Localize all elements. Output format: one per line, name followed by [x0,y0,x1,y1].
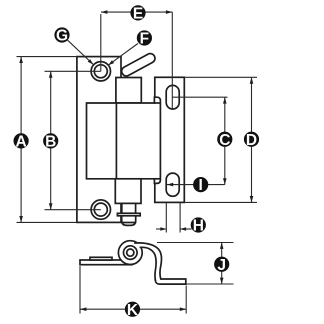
top pin ring outer [91,62,110,81]
bottom step block [115,179,141,204]
arrow K left [80,307,86,311]
dimension D line [251,77,253,202]
arrow A top [19,57,23,63]
side view flag arm and foot fill [135,243,186,284]
knuckle body inner line [115,103,117,179]
bubble K [125,302,140,319]
dimension H right arrow segment [180,228,192,230]
dimension C bottom extension / I leader line [167,184,225,186]
svg-text:A: A [15,134,26,151]
arrow J top [220,243,224,249]
arrow K right [180,307,186,311]
dimension E line [101,11,172,13]
slot centerline extension [171,12,173,110]
side view raised strip [90,257,112,260]
bubble D [244,132,259,149]
arrow A bottom [19,216,23,222]
side view left leaf [80,260,132,265]
svg-text:C: C [219,132,230,149]
side view arm inner edge [141,247,157,280]
arrow E left [101,10,107,14]
dimension K left extension [79,266,81,314]
pin neck [122,203,136,213]
upper slot [166,85,179,109]
side view arm outer edge and foot [135,243,186,284]
right mounting plate [155,77,185,202]
svg-text:F: F [140,31,149,48]
knuckle body top edge right segment [154,102,160,104]
arrow H left [160,227,166,231]
svg-text:B: B [45,134,56,151]
bubble J [214,257,229,274]
dimension D bottom extension [184,201,257,203]
knuckle body bottom edge right segment [154,178,160,180]
arrow I [167,183,173,187]
arrow D top [250,77,254,83]
lower slot [166,173,179,196]
bubble H [191,217,206,234]
leader G line [68,40,94,64]
dimension H right extension [179,203,181,233]
svg-text:K: K [127,302,139,319]
lever F (angled handle) [120,52,157,78]
bottom hole ring outer [91,200,110,219]
dimension C top extension [172,96,227,98]
arrow B bottom [49,203,53,209]
dimension H left arrow segment [156,228,166,230]
svg-text:H: H [193,218,204,235]
pin tip dome [122,216,136,226]
svg-text:E: E [133,6,143,23]
bubble F [137,30,152,47]
dimension B bottom extension [45,209,101,211]
lever mount block [116,78,141,104]
svg-text:G: G [56,28,68,45]
arrow G leader [88,59,94,64]
svg-text:J: J [217,257,226,274]
arrow C top [223,97,227,103]
knuckle body box with right tab [87,97,161,183]
dimension D top extension [184,76,257,78]
dimension A top extension [17,56,78,58]
side view knuckle mid circle [124,246,138,260]
dimension J line [221,243,223,285]
side view knuckle outer curl [118,241,142,265]
side view pin bore [127,249,134,256]
arrow C bottom [223,178,227,184]
bubble B [43,133,58,150]
svg-text:D: D [246,132,257,149]
dimension C line [224,97,226,184]
dimension A line [20,57,22,223]
bubble A [14,133,29,150]
leader F line [108,44,138,66]
dimension H left extension [165,203,167,233]
dimension J top extension [157,242,234,244]
pin flange [117,213,140,216]
pin centerline extension [100,14,102,71]
top pin ring inner [94,65,107,78]
pin tip groove [122,222,135,224]
arrow F leader [108,60,114,65]
dimension B line [50,71,52,209]
bubble I [193,177,208,194]
dimension B top extension [45,70,101,72]
bubble G [54,27,69,44]
dimension A bottom extension [17,221,78,223]
svg-text:I: I [199,177,203,194]
dimension J bottom extension [186,283,233,285]
dimension K line [80,308,186,310]
dimension K right extension [185,286,187,314]
left leaf plate [77,57,121,223]
arrow E right [166,10,172,14]
arrow J bottom [220,278,224,284]
bubble C [217,132,232,149]
bottom hole ring inner [94,203,107,216]
arrow H right [180,227,186,231]
arrow B top [49,71,53,77]
arrow D bottom [250,196,254,202]
bubble E [130,5,145,22]
